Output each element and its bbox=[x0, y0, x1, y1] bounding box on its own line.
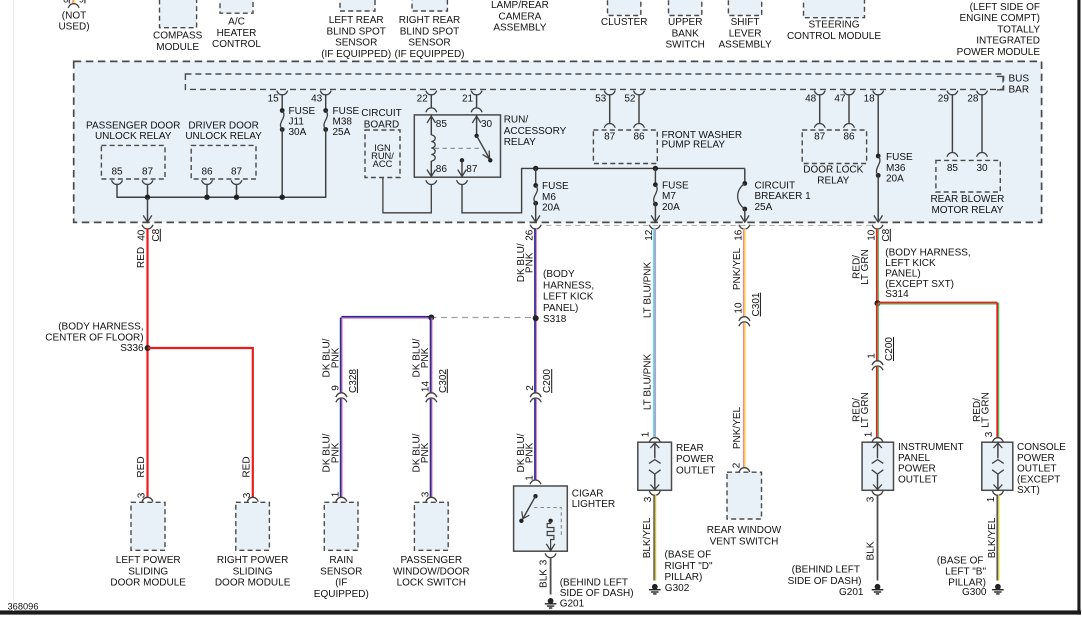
circuit breaker 1 25A bbox=[738, 168, 811, 213]
svg-text:M6: M6 bbox=[542, 192, 556, 203]
svg-text:9: 9 bbox=[79, 0, 84, 5]
svg-text:2: 2 bbox=[731, 462, 742, 468]
svg-text:C302: C302 bbox=[438, 369, 449, 393]
svg-text:10: 10 bbox=[867, 229, 878, 241]
wire PNK/YEL pin 16 upper bbox=[743, 228, 745, 317]
connector at driver relay pin 86 bbox=[202, 180, 213, 184]
steering control module bbox=[787, 0, 881, 42]
svg-text:86: 86 bbox=[201, 167, 213, 178]
wire DK BLU/PNK to lock switch bbox=[430, 399, 432, 498]
wire passenger relay pin 87 to bus bbox=[147, 184, 149, 198]
junction dot fuse M6 tap bbox=[533, 166, 538, 171]
svg-text:COMPASS: COMPASS bbox=[153, 31, 203, 42]
svg-text:PUMP RELAY: PUMP RELAY bbox=[662, 140, 726, 151]
svg-text:C200: C200 bbox=[884, 337, 895, 361]
svg-text:26: 26 bbox=[525, 229, 536, 241]
svg-text:OUTLET: OUTLET bbox=[898, 474, 937, 485]
svg-text:RAIN: RAIN bbox=[329, 555, 353, 566]
svg-text:ASSEMBLY: ASSEMBLY bbox=[493, 23, 546, 34]
svg-text:M7: M7 bbox=[662, 191, 676, 202]
svg-text:C328: C328 bbox=[348, 369, 359, 393]
svg-text:RED: RED bbox=[136, 456, 147, 477]
driver door unlock relay bbox=[185, 120, 262, 179]
svg-text:DOOR MODULE: DOOR MODULE bbox=[215, 578, 291, 589]
svg-text:85: 85 bbox=[436, 119, 448, 130]
option dashed line below TIPM bbox=[546, 224, 871, 226]
bus bar pin 52 terminal bbox=[624, 91, 644, 105]
svg-text:RED: RED bbox=[241, 456, 252, 477]
svg-text:(BEHIND LEFT: (BEHIND LEFT bbox=[792, 564, 860, 575]
wire BLK cigar lighter to ground bbox=[550, 557, 552, 595]
svg-text:LEFT KICK: LEFT KICK bbox=[543, 292, 594, 303]
console power outlet label bbox=[1017, 442, 1066, 496]
TIPM exit terminal pin 26 bbox=[525, 225, 542, 241]
wire fuse M38 to internal bus bbox=[325, 130, 327, 198]
connector at driver relay pin 87 bbox=[231, 180, 242, 184]
svg-text:3: 3 bbox=[866, 496, 877, 502]
svg-text:PANEL): PANEL) bbox=[885, 268, 920, 279]
connector at blower relay pin 30 bbox=[977, 153, 988, 157]
junction dot at driver 87 wire bbox=[234, 195, 239, 200]
svg-text:30: 30 bbox=[481, 119, 493, 130]
svg-text:BAR: BAR bbox=[1009, 84, 1030, 95]
svg-text:CONTROL MODULE: CONTROL MODULE bbox=[787, 31, 881, 42]
splice S336 bbox=[45, 322, 150, 355]
svg-text:REAR: REAR bbox=[676, 443, 704, 454]
svg-text:30: 30 bbox=[976, 163, 988, 174]
svg-text:REAR WINDOW: REAR WINDOW bbox=[707, 525, 782, 536]
svg-text:(LEFT SIDE OF: (LEFT SIDE OF bbox=[970, 2, 1040, 13]
ground G302 base of right D pillar bbox=[649, 550, 713, 594]
connector below relay pin 86 bbox=[426, 180, 437, 184]
svg-text:LT GRN: LT GRN bbox=[860, 392, 871, 428]
svg-text:UPPER: UPPER bbox=[668, 17, 702, 28]
svg-text:LT GRN: LT GRN bbox=[860, 249, 871, 285]
shift lever assembly bbox=[719, 0, 772, 51]
svg-text:BREAKER 1: BREAKER 1 bbox=[755, 191, 812, 202]
svg-text:PNK: PNK bbox=[420, 347, 431, 368]
svg-text:43: 43 bbox=[311, 94, 323, 105]
svg-text:(NOT: (NOT bbox=[62, 10, 86, 21]
totally integrated power module caption bbox=[957, 2, 1041, 58]
connector at door lock relay pin 86 bbox=[844, 124, 855, 128]
svg-text:PNK: PNK bbox=[330, 347, 341, 368]
left rear blind spot sensor bbox=[321, 0, 391, 60]
splice S318 bbox=[533, 269, 594, 325]
connector at washer relay pin 87 bbox=[604, 124, 615, 128]
svg-text:LEFT KICK: LEFT KICK bbox=[885, 258, 936, 269]
connector below instrument outlet bbox=[872, 491, 883, 495]
svg-text:LOCK SWITCH: LOCK SWITCH bbox=[397, 578, 466, 589]
svg-text:POWER: POWER bbox=[898, 464, 936, 475]
wire DK BLU/PNK horizontal branch bbox=[341, 316, 431, 318]
svg-text:8: 8 bbox=[63, 0, 68, 5]
front washer pump relay label bbox=[662, 130, 743, 151]
svg-text:S318: S318 bbox=[543, 314, 567, 325]
svg-text:ACCESSORY: ACCESSORY bbox=[504, 126, 567, 137]
svg-text:POWER: POWER bbox=[1017, 453, 1055, 464]
junction dot branch bbox=[428, 315, 434, 321]
wire DK BLU/PNK rain sensor branch bbox=[340, 318, 342, 394]
svg-text:SIDE OF DASH): SIDE OF DASH) bbox=[788, 576, 862, 587]
svg-text:C8: C8 bbox=[881, 228, 892, 241]
svg-text:BOARD: BOARD bbox=[364, 119, 400, 130]
wire pin 29 to rear blower relay bbox=[951, 94, 953, 153]
svg-text:RELAY: RELAY bbox=[817, 176, 849, 187]
wire DK BLU/PNK to cigar lighter bbox=[534, 399, 536, 481]
connector at vent switch bbox=[739, 468, 750, 472]
svg-text:OUTLET: OUTLET bbox=[676, 465, 715, 476]
A/C heater control bbox=[212, 0, 261, 50]
svg-text:VENT SWITCH: VENT SWITCH bbox=[710, 536, 779, 547]
svg-text:DOOR MODULE: DOOR MODULE bbox=[110, 578, 186, 589]
ground G201 behind left side of dash bbox=[545, 578, 634, 610]
svg-text:UNLOCK RELAY: UNLOCK RELAY bbox=[185, 131, 262, 142]
svg-text:20A: 20A bbox=[886, 174, 904, 185]
wire pin 18 to fuse M36 bbox=[877, 94, 879, 156]
svg-text:SLIDING: SLIDING bbox=[233, 566, 273, 577]
svg-text:RED: RED bbox=[136, 247, 147, 268]
svg-text:PNK: PNK bbox=[420, 442, 431, 463]
svg-text:9: 9 bbox=[331, 385, 342, 391]
svg-text:BLK/YEL: BLK/YEL bbox=[642, 517, 653, 558]
svg-text:BUS: BUS bbox=[1009, 73, 1030, 84]
svg-text:25A: 25A bbox=[755, 202, 773, 213]
svg-text:RUN/: RUN/ bbox=[504, 115, 529, 126]
connector at passenger relay pin 87 bbox=[142, 180, 153, 184]
arrow exit fuse M7 bbox=[654, 204, 656, 222]
svg-text:40: 40 bbox=[137, 229, 148, 241]
svg-text:1: 1 bbox=[330, 491, 341, 497]
svg-text:LEFT REAR: LEFT REAR bbox=[329, 15, 384, 26]
svg-text:(BASE OF: (BASE OF bbox=[937, 555, 984, 566]
svg-text:PNK/YEL: PNK/YEL bbox=[732, 406, 743, 449]
svg-text:18: 18 bbox=[864, 94, 876, 105]
ground G201 behind left side of dash (instrument) bbox=[788, 564, 884, 598]
svg-text:SXT): SXT) bbox=[1017, 485, 1040, 496]
svg-text:(BASE OF: (BASE OF bbox=[665, 550, 712, 561]
svg-text:87: 87 bbox=[466, 164, 478, 175]
svg-text:G201: G201 bbox=[560, 598, 585, 609]
wire pin 53 to front washer pump relay bbox=[609, 94, 611, 124]
svg-text:LT BLU/PNK: LT BLU/PNK bbox=[642, 354, 653, 411]
svg-text:CLUSTER: CLUSTER bbox=[601, 17, 648, 28]
svg-text:C301: C301 bbox=[751, 292, 762, 316]
TIPM exit terminal pin 10 bbox=[867, 225, 892, 242]
connector at rain sensor bbox=[336, 497, 347, 501]
svg-text:ACC: ACC bbox=[373, 159, 393, 169]
fuse M36 20A bbox=[876, 152, 913, 185]
upper bank switch bbox=[665, 0, 704, 51]
wire DK BLU/PNK to rain sensor bbox=[340, 399, 342, 498]
svg-text:10: 10 bbox=[734, 302, 745, 314]
connector below rear power outlet bbox=[649, 491, 660, 495]
lamp/rear camera assembly bbox=[491, 0, 549, 34]
svg-text:G302: G302 bbox=[665, 583, 690, 594]
svg-text:RIGHT REAR: RIGHT REAR bbox=[399, 15, 461, 26]
wire BLK instrument outlet to ground bbox=[877, 495, 879, 581]
bus bar pin 43 terminal bbox=[311, 91, 331, 105]
wire BLK/YEL rear outlet to ground bbox=[653, 495, 655, 581]
svg-text:PNK: PNK bbox=[330, 442, 341, 463]
svg-text:HEATER: HEATER bbox=[217, 28, 257, 39]
svg-text:BLK: BLK bbox=[866, 541, 877, 560]
svg-text:21: 21 bbox=[462, 94, 474, 105]
svg-text:30A: 30A bbox=[289, 127, 307, 138]
dashed splice link S318 to switch branch bbox=[434, 317, 531, 319]
run/accessory relay U-relay bbox=[414, 115, 500, 177]
svg-text:86: 86 bbox=[843, 132, 855, 143]
svg-text:SENSOR: SENSOR bbox=[408, 38, 450, 49]
svg-text:CIRCUIT: CIRCUIT bbox=[361, 108, 402, 119]
svg-text:RIGHT POWER: RIGHT POWER bbox=[217, 555, 288, 566]
wire DK BLU/PNK pin 26 down bbox=[534, 228, 536, 393]
svg-text:53: 53 bbox=[595, 94, 607, 105]
wire LT BLU/PNK pin 12 to rear power outlet bbox=[653, 228, 655, 438]
connector (NOT USED) with cut pin stubs 8/9 bbox=[58, 0, 89, 33]
cigar lighter label bbox=[572, 488, 615, 510]
svg-text:1: 1 bbox=[986, 496, 997, 502]
wire RED/LT GRN S314 to C200 bbox=[876, 303, 878, 361]
passenger window/door lock switch bbox=[393, 502, 470, 588]
svg-text:A/C: A/C bbox=[228, 17, 245, 28]
right rear blind spot sensor bbox=[394, 0, 464, 60]
connector C301 pin 10 bbox=[734, 292, 762, 326]
svg-text:(EXCEPT: (EXCEPT bbox=[1017, 474, 1060, 485]
connector at door lock relay pin 87 bbox=[814, 124, 825, 128]
svg-text:15: 15 bbox=[268, 94, 280, 105]
svg-text:85: 85 bbox=[111, 167, 123, 178]
svg-text:(BODY: (BODY bbox=[543, 269, 575, 280]
splice S314 bbox=[875, 247, 971, 306]
svg-text:SHIFT: SHIFT bbox=[731, 17, 760, 28]
svg-text:14: 14 bbox=[421, 381, 432, 393]
wire PNK/YEL to vent switch bbox=[743, 323, 745, 468]
svg-text:28: 28 bbox=[967, 94, 979, 105]
svg-text:M38: M38 bbox=[333, 117, 353, 128]
wire RED branch to right sliding door module bbox=[148, 348, 253, 498]
svg-text:(IF: (IF bbox=[335, 578, 347, 589]
svg-text:RIGHT "D": RIGHT "D" bbox=[665, 561, 713, 572]
svg-text:DOOR LOCK: DOOR LOCK bbox=[803, 165, 863, 176]
svg-text:PANEL: PANEL bbox=[898, 453, 930, 464]
svg-text:86: 86 bbox=[436, 164, 448, 175]
svg-text:CENTER OF FLOOR): CENTER OF FLOOR) bbox=[45, 332, 143, 343]
connector at relay pin 30 bbox=[471, 108, 482, 112]
TIPM exit terminal pin 40 bbox=[137, 225, 162, 242]
cigar lighter bbox=[514, 486, 568, 551]
rear blower motor relay bbox=[930, 160, 1004, 216]
connector below relay pin 87 bbox=[457, 180, 468, 184]
wire pin 48 to door lock relay bbox=[819, 94, 821, 124]
svg-text:CIGAR: CIGAR bbox=[572, 488, 604, 499]
wire pin 47 to door lock relay bbox=[848, 94, 850, 124]
connector at lock switch bbox=[426, 497, 437, 501]
wire RED/LT GRN branch to console outlet bbox=[878, 302, 998, 304]
arrow exit fuse M6 bbox=[535, 203, 537, 221]
svg-text:FUSE: FUSE bbox=[886, 152, 913, 163]
svg-text:87: 87 bbox=[142, 167, 154, 178]
svg-text:OUTLET: OUTLET bbox=[1017, 464, 1056, 475]
circuit board IGN RUN/ACC bbox=[365, 130, 400, 178]
svg-text:BLIND SPOT: BLIND SPOT bbox=[326, 26, 385, 37]
bus bar pin 15 terminal bbox=[268, 91, 288, 105]
connector at cigar lighter bbox=[530, 480, 541, 484]
svg-text:(BEHIND LEFT: (BEHIND LEFT bbox=[560, 578, 628, 589]
svg-text:M36: M36 bbox=[886, 163, 906, 174]
ground G300 base of left B pillar bbox=[937, 555, 1004, 598]
svg-text:G201: G201 bbox=[839, 587, 864, 598]
connector C200 pin 2 bbox=[525, 369, 553, 403]
svg-text:3: 3 bbox=[984, 431, 995, 437]
svg-text:USED): USED) bbox=[58, 22, 89, 33]
wire circuit board to relay pin 86 bbox=[383, 178, 431, 213]
bus bar pin 47 terminal bbox=[834, 91, 854, 105]
svg-text:29: 29 bbox=[938, 94, 950, 105]
compass module bbox=[153, 0, 203, 53]
arrow exit circuit breaker 1 bbox=[744, 209, 746, 222]
svg-text:LAMP/REAR: LAMP/REAR bbox=[491, 0, 549, 11]
console power outlet bbox=[982, 442, 1013, 490]
svg-text:PNK: PNK bbox=[525, 252, 536, 273]
svg-text:HARNESS,: HARNESS, bbox=[543, 280, 594, 291]
connector C200 pin 1 bbox=[867, 337, 895, 371]
svg-text:RELAY: RELAY bbox=[504, 137, 536, 148]
svg-text:SENSOR: SENSOR bbox=[335, 38, 377, 49]
svg-text:BLIND SPOT: BLIND SPOT bbox=[400, 26, 459, 37]
svg-text:20A: 20A bbox=[662, 202, 680, 213]
TIPM exit terminal pin 16 bbox=[733, 225, 750, 241]
svg-text:LEVER: LEVER bbox=[729, 28, 762, 39]
junction dot at fuse J11 wire bbox=[280, 195, 285, 200]
connector at blower relay pin 85 bbox=[947, 153, 958, 157]
svg-text:STEERING: STEERING bbox=[808, 20, 859, 31]
wire driver relay pin 86 to bus bbox=[206, 184, 208, 198]
svg-text:C200: C200 bbox=[542, 369, 553, 393]
svg-text:20A: 20A bbox=[542, 203, 560, 214]
svg-text:FUSE: FUSE bbox=[542, 181, 569, 192]
svg-text:BLK: BLK bbox=[539, 569, 550, 588]
svg-text:1: 1 bbox=[863, 431, 874, 437]
svg-text:EQUIPPED): EQUIPPED) bbox=[314, 589, 369, 600]
svg-text:1: 1 bbox=[641, 431, 652, 437]
connector below console outlet bbox=[992, 491, 1003, 495]
wire passenger relay pin 85 to bus bbox=[116, 184, 118, 198]
bus bar pin 28 terminal bbox=[967, 91, 987, 105]
arrow exit to red feed bbox=[147, 198, 149, 222]
connector at passenger relay pin 85 bbox=[112, 180, 123, 184]
svg-text:52: 52 bbox=[624, 94, 636, 105]
wire pin 22 to run/accessory relay bbox=[430, 94, 432, 108]
svg-text:MOTOR RELAY: MOTOR RELAY bbox=[931, 205, 1003, 216]
svg-text:CONTROL: CONTROL bbox=[212, 39, 261, 50]
svg-text:3: 3 bbox=[539, 559, 550, 565]
svg-text:FUSE: FUSE bbox=[333, 106, 360, 117]
svg-text:PNK/YEL: PNK/YEL bbox=[732, 247, 743, 290]
connector at washer relay pin 86 bbox=[634, 124, 645, 128]
junction dot fuse M7 tap bbox=[653, 166, 658, 171]
svg-text:INTEGRATED: INTEGRATED bbox=[976, 36, 1040, 47]
instrument panel power outlet bbox=[862, 442, 893, 490]
left power sliding door module bbox=[110, 502, 186, 588]
svg-text:C8: C8 bbox=[151, 228, 162, 241]
svg-text:DRIVER DOOR: DRIVER DOOR bbox=[188, 120, 259, 131]
svg-text:BLK/YEL: BLK/YEL bbox=[987, 517, 998, 558]
fuse M38 25A bbox=[323, 106, 359, 138]
svg-text:87: 87 bbox=[814, 132, 826, 143]
connector at left module bbox=[142, 497, 153, 501]
wire BLK/YEL console outlet to ground bbox=[996, 495, 998, 581]
svg-text:REAR BLOWER: REAR BLOWER bbox=[930, 194, 1004, 205]
svg-text:PILLAR): PILLAR) bbox=[665, 572, 703, 583]
connector at relay pin 85/86 bbox=[426, 108, 437, 112]
svg-text:PNK: PNK bbox=[525, 442, 536, 463]
connector at rear power outlet bbox=[649, 438, 660, 442]
bus bar pin 21 terminal bbox=[462, 91, 482, 105]
svg-text:LEFT "B": LEFT "B" bbox=[945, 567, 986, 578]
svg-text:22: 22 bbox=[417, 94, 429, 105]
wire RED/LT GRN pin 10 down bbox=[876, 228, 878, 303]
svg-text:368096: 368096 bbox=[8, 602, 39, 612]
wire RED/LT GRN to instrument panel outlet bbox=[876, 367, 878, 438]
fuse M6 20A bbox=[533, 168, 569, 213]
bus bar bbox=[185, 73, 1029, 95]
rear window vent switch bbox=[707, 472, 782, 547]
door lock relay bbox=[802, 130, 866, 187]
svg-text:(IF EQUIPPED): (IF EQUIPPED) bbox=[394, 49, 464, 60]
svg-text:SWITCH: SWITCH bbox=[665, 40, 704, 51]
right power sliding door module bbox=[215, 502, 291, 588]
svg-text:85: 85 bbox=[947, 163, 959, 174]
svg-text:G300: G300 bbox=[962, 587, 987, 598]
svg-text:WINDOW/DOOR: WINDOW/DOOR bbox=[393, 566, 470, 577]
svg-text:J11: J11 bbox=[289, 117, 305, 128]
run/accessory relay label bbox=[504, 115, 567, 149]
wire driver relay pin 87 to bus bbox=[236, 184, 238, 198]
svg-text:FUSE: FUSE bbox=[289, 106, 316, 117]
svg-text:SENSOR: SENSOR bbox=[320, 566, 362, 577]
wire pin 52 to front washer pump relay bbox=[638, 94, 640, 124]
svg-text:PANEL): PANEL) bbox=[543, 303, 578, 314]
svg-text:POWER: POWER bbox=[676, 454, 714, 465]
connector C302 pin 14 bbox=[421, 369, 449, 403]
fuse M7 20A bbox=[653, 168, 689, 213]
svg-text:MODULE: MODULE bbox=[156, 42, 199, 53]
svg-text:CONSOLE: CONSOLE bbox=[1017, 442, 1066, 453]
connector below cigar lighter bbox=[545, 553, 556, 557]
svg-text:16: 16 bbox=[733, 229, 744, 241]
svg-text:CAMERA: CAMERA bbox=[499, 11, 542, 22]
connector at instrument outlet bbox=[872, 438, 883, 442]
wire relay pin 87 to fuse feed bus bbox=[462, 168, 745, 212]
wire RED pin 40 down to left sliding door module bbox=[146, 228, 148, 497]
svg-text:S314: S314 bbox=[885, 289, 909, 300]
wire pin 43 to fuse M38 bbox=[325, 94, 327, 110]
bus bar pin 22 terminal bbox=[417, 91, 437, 105]
instrument panel power outlet label bbox=[898, 442, 964, 485]
wire fuse J11 to internal bus bbox=[281, 130, 283, 198]
svg-text:CIRCUIT: CIRCUIT bbox=[755, 180, 796, 191]
bus bar pin 18 terminal bbox=[864, 91, 884, 105]
passenger door unlock relay bbox=[86, 120, 180, 179]
rain sensor module bbox=[314, 502, 369, 600]
svg-text:3: 3 bbox=[420, 491, 431, 497]
svg-text:INSTRUMENT: INSTRUMENT bbox=[898, 442, 964, 453]
wire pin 21 to run/accessory relay bbox=[476, 94, 478, 108]
wire pin 15 to fuse J11 bbox=[281, 94, 283, 110]
front washer pump relay bbox=[593, 130, 657, 164]
svg-text:UNLOCK RELAY: UNLOCK RELAY bbox=[95, 131, 172, 142]
